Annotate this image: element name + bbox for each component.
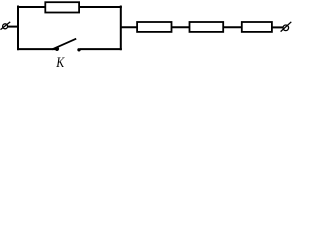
wire: R2 to R3 [172, 26, 191, 28]
wire: R4 to terminal T2 [272, 26, 283, 28]
svg-text:K: K [55, 54, 65, 70]
wire: top branch, left bus to R1 [17, 6, 46, 8]
switch K right contact dot [77, 48, 80, 51]
terminal T1 (left input, circle with slash) [1, 22, 11, 30]
switch K pivot dot [55, 47, 59, 51]
resistor R4 (third series box) [242, 22, 272, 32]
wire: R3 to R4 [223, 26, 242, 28]
switch K blade (open) [52, 39, 76, 50]
wire: bottom branch, left bus to switch [17, 48, 56, 50]
wire: right vertical bus [120, 6, 122, 51]
resistor R1 (top branch box) [45, 2, 79, 12]
wire: left vertical bus [17, 6, 19, 51]
terminal T2 (right output, circle with slash) [281, 22, 292, 32]
resistor R2 (first series box) [137, 22, 171, 32]
wire: right bus to R2 [120, 26, 137, 28]
resistor R3 (second series box) [190, 22, 224, 32]
wire: T1 to left vertical bus [8, 26, 19, 28]
wire: R1 to right vertical bus [79, 6, 122, 8]
wire: switch to right vertical bus [80, 48, 122, 50]
